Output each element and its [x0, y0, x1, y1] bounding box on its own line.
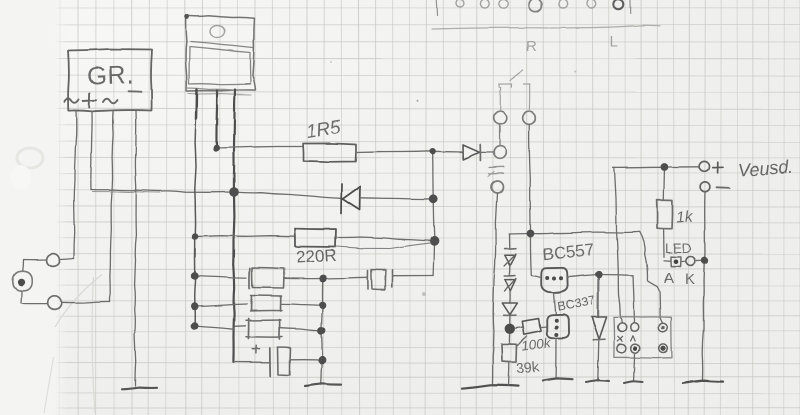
wire switch right contact down	[529, 125, 530, 234]
transistor Q2 BC337	[547, 314, 569, 338]
input jack	[13, 271, 33, 291]
wire GR + lead down and right (main + rail)	[91, 112, 92, 190]
wire curving down to relay	[640, 232, 663, 323]
tab divider line	[191, 42, 254, 48]
svg-text:K: K	[685, 271, 695, 288]
wire pin2 to R 1R5	[217, 147, 304, 149]
regulator U1 TO-220 package	[186, 16, 256, 91]
bridge rectifier GR box	[68, 49, 152, 111]
diode D7	[597, 278, 600, 317]
mounting hole	[210, 26, 225, 38]
resistor 1R5	[303, 143, 356, 161]
wire GR - lead down to ground	[135, 112, 137, 387]
wire Q1 to Q2	[554, 292, 556, 313]
wire Q2 emitter to ground	[555, 338, 557, 377]
U1 pin 2 leg	[215, 91, 218, 149]
wires 220R to node (double stroke)	[336, 237, 435, 241]
faint pencil arc bottom-left	[44, 275, 102, 414]
svg-text:GR.: GR.	[87, 61, 135, 91]
svg-text:39k: 39k	[516, 359, 541, 377]
wire + supply row	[613, 166, 661, 169]
diode D4	[505, 247, 516, 249]
diode D3 right pointing	[463, 145, 480, 160]
ground (cap bank)	[305, 384, 341, 386]
underline wave	[432, 25, 660, 29]
wire relay to ground	[634, 353, 635, 380]
wire node to diode D3	[433, 150, 463, 153]
crystal / cap row to node	[323, 277, 368, 278]
resistor 220R	[295, 229, 336, 248]
wire to jack top	[23, 260, 47, 272]
faint eraser smudge left	[17, 148, 43, 168]
wire rail to R 220R	[195, 235, 295, 238]
resistor 1k	[663, 171, 666, 199]
diode D5	[505, 275, 516, 277]
body inner box	[189, 47, 251, 85]
ground (relay)	[624, 381, 643, 383]
ground (Q2)	[543, 378, 573, 380]
U1 pin 1 leg / left rail	[195, 90, 198, 120]
supply rail vertical	[614, 168, 622, 323]
svg-text:A: A	[664, 270, 674, 287]
middle ground rail x322	[321, 279, 323, 386]
input terminal circle bottom	[48, 296, 62, 310]
resistor 39k	[502, 344, 517, 362]
svg-text:LED: LED	[665, 241, 692, 256]
contact hatch marks	[489, 166, 504, 169]
wire 1R5 to node	[356, 151, 433, 152]
LED symbols	[664, 260, 671, 262]
wire switch to ground	[493, 193, 498, 384]
U1 pin 3 leg (dark vertical rail)	[234, 90, 235, 193]
node blob	[505, 324, 515, 334]
node stub	[509, 233, 531, 236]
right ground rail	[703, 192, 705, 379]
electrolytic capacitor C4 row D	[233, 361, 269, 363]
svg-text:220R: 220R	[296, 246, 338, 267]
wire jack bottom	[21, 291, 48, 304]
transistor Q1 BC557	[541, 268, 567, 293]
ground (switch column, wide)	[462, 385, 518, 388]
stray marks	[422, 292, 426, 296]
connector strip pads	[436, 0, 630, 16]
terminal marks ~ + ~ -	[64, 98, 79, 103]
capacitor C3 row C	[235, 325, 246, 328]
ground (GR minus)	[122, 388, 157, 390]
switch bracket and lever	[499, 70, 530, 112]
wire rail corner to dark rail	[195, 326, 234, 329]
svg-text:L: L	[610, 33, 618, 50]
wire terminal to GR ~2 lead	[62, 301, 111, 302]
wire Q1 collector right	[568, 275, 599, 278]
terminal + circle	[699, 161, 709, 171]
wire GR ~1 lead down	[73, 112, 76, 259]
relay contact block	[614, 317, 672, 358]
capacitor C2 row B	[195, 304, 247, 307]
terminal - circle	[700, 182, 710, 192]
diode D6	[502, 303, 517, 315]
resistor 100k	[515, 327, 522, 328]
wire node down to Q1 emitter	[530, 234, 540, 278]
svg-text:R: R	[526, 38, 537, 55]
diode D2 (left pointing) on + rail	[340, 184, 343, 214]
wire node column x433	[433, 151, 435, 275]
svg-text:1k: 1k	[676, 208, 695, 226]
wire node to relay (top horizontal)	[531, 232, 640, 234]
ground (D7)	[586, 380, 609, 382]
input terminal circle top	[47, 254, 60, 267]
svg-text:Veusd.: Veusd.	[737, 157, 794, 181]
switch S1 contacts	[494, 111, 507, 124]
ground (right rail)	[683, 381, 723, 384]
capacitor C1 row A	[195, 276, 247, 278]
